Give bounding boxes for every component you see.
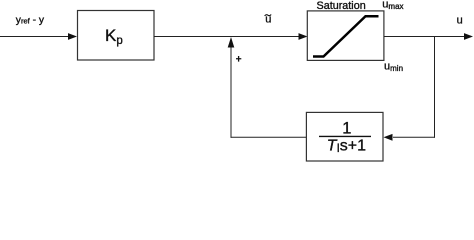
svg-text:u: u: [457, 15, 463, 27]
svg-text:Saturation: Saturation: [317, 0, 366, 12]
svg-text:1: 1: [342, 120, 351, 138]
svg-text:TIs+1: TIs+1: [327, 138, 366, 156]
svg-text:yref - y: yref - y: [16, 15, 45, 26]
svg-text:umax: umax: [382, 0, 403, 11]
